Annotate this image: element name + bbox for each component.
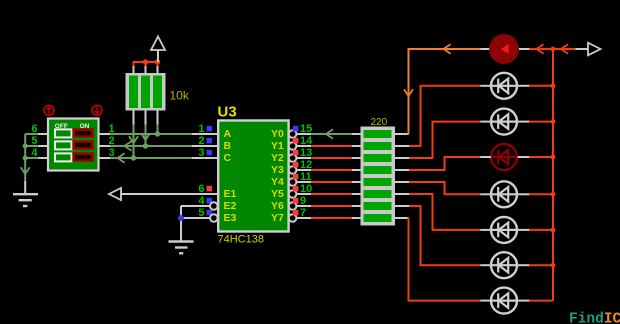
svg-text:220: 220	[371, 117, 388, 128]
U3 logic state square E1	[207, 186, 213, 192]
wire LED D8 to +5V rail	[529, 300, 553, 302]
svg-text:Y2: Y2	[271, 152, 284, 164]
DIP switch right pin stubs	[99, 134, 111, 158]
wire DIP pin4 to ground rail	[25, 157, 38, 159]
IC U3 74HC138 body	[218, 121, 288, 232]
svg-text:13: 13	[300, 147, 312, 159]
wire RN1 leg2 down to row B	[145, 125, 147, 147]
svg-text:FindIC: FindIC	[569, 311, 620, 324]
svg-text:A: A	[224, 128, 232, 140]
node junction leg3 row A	[155, 131, 160, 136]
LED D1 (lit)	[480, 34, 529, 64]
node junction leg3 VCC	[155, 59, 160, 64]
current arrow rail wire 1	[537, 44, 544, 54]
wire Y3 to RN2	[311, 169, 352, 171]
U3 output pin stubs	[296, 134, 311, 218]
wire E1	[121, 193, 218, 195]
LED D4 (red, off)	[480, 144, 529, 170]
svg-text:Y7: Y7	[271, 212, 284, 224]
wire DIP pin6 to ground rail	[25, 133, 38, 135]
wire row C from DIP to U3	[110, 157, 192, 159]
wire E3 to ground	[181, 217, 210, 219]
svg-text:U3: U3	[218, 104, 237, 121]
current arrow leg1	[129, 136, 138, 143]
wire Y0 to RN2 (sinking current)	[311, 133, 352, 135]
current arrow on ground rail	[21, 167, 30, 174]
wire RN2-6 to LED D6	[409, 194, 480, 230]
svg-text:3: 3	[198, 147, 204, 159]
wire row A from DIP to U3	[110, 133, 192, 135]
U3 logic state square E3	[207, 210, 213, 216]
wire Y1 to RN2	[311, 145, 352, 147]
wire RN2-3 to LED D3	[409, 122, 480, 158]
svg-text:11: 11	[300, 171, 312, 183]
current arrow row C	[118, 153, 125, 163]
wire E2 to ground	[181, 205, 210, 207]
rail junction nodes	[551, 47, 556, 268]
U3 input pin numbers 1 2 3	[198, 123, 204, 159]
resistor pack RN2 220	[361, 127, 396, 226]
svg-text:Y6: Y6	[271, 200, 284, 212]
U3 inversion bubble E3	[210, 214, 218, 222]
ground GND2	[169, 242, 194, 254]
node junction pin5 rail	[23, 144, 28, 149]
svg-text:Y3: Y3	[271, 164, 284, 176]
current arrow Y0 wire	[326, 129, 333, 139]
svg-text:2: 2	[198, 135, 204, 147]
current arrow rail wire 2	[561, 44, 568, 54]
wire LED D6 to +5V rail	[529, 229, 553, 231]
U3 input pin stubs A B C	[192, 134, 218, 158]
terminal +5V stub	[576, 48, 589, 50]
U3 output inversion bubbles Y0-Y7	[289, 130, 297, 222]
svg-text:Y0: Y0	[271, 128, 284, 140]
current arrow leg2	[141, 133, 150, 140]
ground GND1	[13, 194, 38, 206]
U3 output logic state squares	[293, 126, 299, 216]
wire LED D5 to +5V rail	[529, 193, 553, 195]
wire LED D2 to +5V rail	[529, 85, 553, 87]
LED D6	[480, 217, 529, 243]
wire RN2-8 to LED D8	[409, 218, 481, 301]
U3 output pin numbers	[300, 123, 313, 219]
wire E2/E3 ground vertical	[180, 206, 182, 241]
wire LED D4 to +5V rail	[529, 156, 553, 158]
DIP pin numbers 1 2 3	[109, 123, 115, 159]
wire Y5 to RN2	[311, 193, 352, 195]
RN1 bottom pin stubs	[134, 111, 158, 125]
svg-text:10: 10	[300, 183, 312, 195]
current arrow row B	[125, 141, 132, 151]
LED D5	[480, 181, 529, 207]
U3 logic state squares A B C	[207, 126, 213, 156]
wire RN2-4 to LED D4	[409, 157, 480, 170]
terminal E1 input arrow	[109, 188, 121, 200]
DIP switch SW1 body	[48, 119, 99, 171]
wire row B from DIP to U3	[110, 145, 192, 147]
svg-text:74HC138: 74HC138	[218, 234, 264, 246]
svg-text:10k: 10k	[170, 89, 190, 103]
wire RN2-1 to LED D1 (conducting)	[409, 49, 481, 134]
actuator marker up (increment button)	[44, 105, 54, 115]
wire Y2 to RN2	[311, 157, 352, 159]
svg-text:12: 12	[300, 159, 312, 171]
svg-text:1: 1	[198, 123, 204, 135]
terminal +5V arrow	[588, 43, 601, 56]
node junction pin4 rail	[23, 156, 28, 161]
LED D7	[480, 252, 529, 278]
svg-text:E3: E3	[224, 212, 237, 224]
svg-text:15: 15	[300, 123, 312, 135]
wire LED D3 to +5V rail	[529, 121, 553, 123]
resistor pack RN1 10k	[126, 73, 166, 111]
ground terminal pin stub	[24, 181, 26, 194]
LED D3	[480, 109, 529, 135]
svg-text:9: 9	[300, 195, 306, 207]
wire RN1 leg3 down to row A	[157, 125, 159, 135]
node junction leg1 row C	[131, 155, 136, 160]
svg-text:7: 7	[300, 207, 306, 219]
RN2 right pin stubs	[395, 134, 409, 218]
wire Y4 to RN2	[311, 181, 352, 183]
wire Y7 to RN2	[311, 217, 352, 219]
actuator marker down (decrement button)	[92, 105, 102, 115]
U3 logic state square E2	[207, 198, 213, 204]
RN1 top pin stubs	[134, 64, 158, 74]
wire RN2-2 to LED D2	[409, 86, 480, 146]
svg-text:C: C	[224, 152, 232, 164]
wire +5V rail vertical	[552, 49, 554, 301]
LED D8	[480, 288, 529, 314]
node junction leg2 VCC	[143, 59, 148, 64]
current arrow D1 wire horizontal	[444, 44, 451, 54]
node junction leg2 row B	[143, 143, 148, 148]
svg-text:Y1: Y1	[271, 140, 284, 152]
svg-text:Y5: Y5	[271, 188, 284, 200]
wire RN1 leg1 down to row C	[133, 125, 135, 159]
U3 inversion bubble E2	[210, 202, 218, 210]
svg-text:E1: E1	[224, 188, 237, 200]
DIP pin numbers 6 5 4	[31, 123, 38, 159]
node junction E3	[178, 215, 184, 221]
svg-text:E2: E2	[224, 200, 237, 212]
wire LED D1 to +5V rail	[529, 48, 553, 50]
wire RN2-5 to LED D5	[409, 182, 480, 194]
wire DIP pin5 to ground rail	[25, 145, 38, 147]
wire VCC to RN1 tops	[134, 62, 159, 66]
svg-text:Y4: Y4	[271, 176, 284, 188]
power terminal VCC	[151, 37, 165, 63]
wire LED D7 to +5V rail	[529, 264, 553, 266]
wire rail to +5V terminal	[553, 48, 576, 50]
wire Y6 to RN2	[311, 205, 352, 207]
current arrow D1 wire vertical	[404, 89, 413, 96]
svg-text:B: B	[224, 140, 232, 152]
DIP switch left pin stubs	[39, 134, 49, 158]
U3 pin names Y0-Y7	[271, 128, 284, 224]
wire left ground rail vertical	[24, 134, 26, 181]
RN2 left pin stubs	[352, 134, 361, 218]
wire RN2-7 to LED D7	[409, 206, 480, 265]
LED D2	[480, 73, 529, 99]
